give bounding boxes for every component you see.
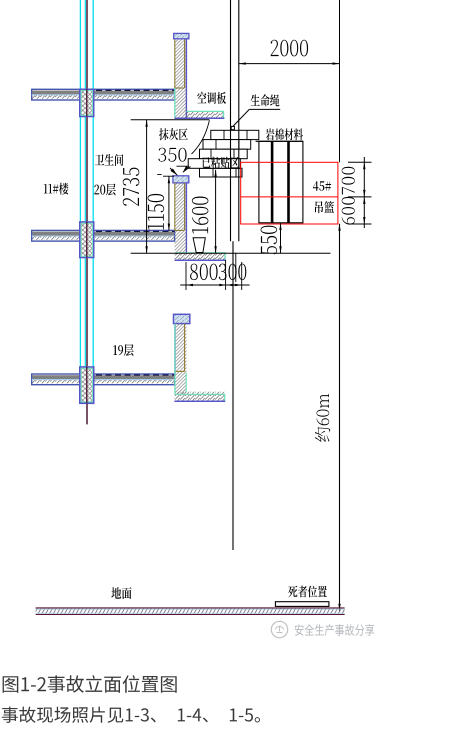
suspension rope right [238,0,240,241]
label life rope [251,94,280,106]
pasted-area label box [188,159,240,169]
watermark text [295,624,374,636]
mortar bucket on AC slab [193,238,205,253]
suspension rope left [230,0,232,241]
dim text 700 [342,167,355,195]
plaster area leader arc [192,120,210,154]
dimension 550 [280,223,282,253]
deceased position marker [275,602,329,607]
witness line [235,253,237,282]
dim text 1600 [192,197,209,234]
wall finish line cyan outer-left [79,0,81,374]
label 45# [313,181,331,191]
dim text about 60m [315,394,330,442]
fall path line to ground [232,241,234,550]
floor slab above 20F (roof slab) [32,89,175,100]
19F AC slab [174,324,225,402]
label deceased position [288,586,327,598]
label 20F [94,184,116,196]
dim text 800 [190,264,218,281]
label plaster area [159,128,188,140]
wall finish line cyan right [92,0,94,374]
20F AC slab (kongtiaoban) teal L [175,88,225,119]
life line attachment square [231,126,234,129]
dim text 300 [219,264,247,281]
AC slab top reference line [131,252,331,254]
dimension about 60m [339,224,341,611]
dim text 2000 [271,40,308,57]
label building 11 [44,183,69,195]
life rope leader + underline [249,108,280,110]
dim text 1150 [148,194,165,230]
AC slab below 20F floor [175,253,226,261]
dimension 1150 [168,176,170,230]
dim text 350 [158,148,186,162]
dimension 1600 [215,170,217,254]
wall stub at 20F floor slab [80,222,94,258]
watermark logo circle [271,621,287,637]
19F parapet cap [174,314,190,323]
20F spandrel wall below window [175,183,187,253]
20F parapet cap [174,33,189,38]
dimension 700/600 right side [363,157,365,228]
label rock wool material [266,128,303,140]
dimension 2735 [146,120,148,253]
wall stub at roof slab [80,89,94,116]
red accident highlight box 45# basket [241,162,338,224]
leader arrow of pasted-area label [182,166,188,173]
20F parapet wall above AC slab [175,39,187,118]
label ground [111,587,131,599]
20F window sill cap [173,176,189,183]
caption note [2,707,260,723]
pasted insulation board rows [211,130,259,139]
dim text 550 [261,226,278,255]
wall finish line cyan inner [84,0,86,374]
dim text 600 [342,197,355,225]
floor slab 20F/19F [32,230,175,241]
floor slab 19F floor [32,374,175,385]
window head reference line [131,119,210,121]
label bathroom [95,154,123,166]
rock wool material stack on basket [256,140,303,142]
19F parapet wall [175,324,187,395]
witness line right / 2000 [339,0,341,162]
label kongtiaoban AC slab [197,92,226,104]
caption figure title [3,675,177,693]
wall axis maroon line [86,0,88,424]
ground strip [36,608,345,615]
label 19F [113,344,133,356]
wall stub at 19F floor slab [80,367,94,403]
dim text 2735 [123,168,140,206]
dimension 2000 [239,63,340,65]
dimension 350 leader arrows [170,168,177,175]
dimension 800 and 300 [180,284,249,286]
label hanging basket [315,201,334,213]
label pasted area [202,157,239,169]
